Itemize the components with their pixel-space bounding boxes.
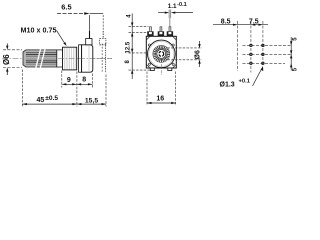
- side-view pin (front, solid): [86, 31, 92, 45]
- svg-text:6.5: 6.5: [61, 3, 71, 12]
- svg-text:±0.5: ±0.5: [45, 95, 58, 102]
- dimensions 5 / 5 (right of pin layout): [290, 37, 299, 71]
- dimension 45 ±0.5 and 15,5 (bottom): [22, 70, 106, 107]
- svg-text:+0.1: +0.1: [239, 79, 251, 85]
- front pins (3): [147, 27, 173, 37]
- dimension 6.5 (top of side view): [57, 3, 103, 31]
- svg-text:1.1: 1.1: [168, 3, 177, 10]
- dimensions 9 and 8 (bushing/body depth): [62, 71, 93, 88]
- left dimension stack: 4 / 12.5 / 8: [125, 14, 151, 80]
- dimension 16 (bottom of front view): [147, 72, 176, 106]
- centerline overlay through bushing/body: [58, 58, 112, 60]
- dimensions 8.5 / 7.5 (top of pin layout): [213, 19, 268, 26]
- threaded bushing M10: [63, 47, 77, 70]
- dimension Ø6 (shaft diameter, left): [2, 44, 22, 76]
- right dimension Ø6 (front view shaft): [168, 41, 203, 67]
- svg-text:12.5: 12.5: [126, 41, 132, 53]
- svg-text:15,5: 15,5: [85, 97, 98, 104]
- label Ø1.3 +0.1 with leader: [220, 66, 264, 89]
- square body: [146, 36, 176, 68]
- svg-text:-0.1: -0.1: [177, 2, 187, 8]
- horizontal dashed lines through pin rows: [243, 45, 292, 63]
- body of potentiometer (side view): [79, 43, 106, 73]
- pin holes 2x3: [250, 44, 264, 64]
- label M10 x 0.75 with leader: [21, 26, 67, 46]
- svg-text:M10 x 0.75: M10 x 0.75: [21, 26, 57, 35]
- shaft (knurled): [23, 49, 57, 68]
- dimension 1.1 -0.1 (pin thickness, top): [158, 2, 193, 27]
- svg-text:45: 45: [37, 97, 45, 104]
- bottom tabs: [150, 68, 154, 71]
- svg-text:9: 9: [67, 77, 71, 84]
- centerline of side view: [2, 58, 112, 60]
- vertical dashed reference lines: [238, 21, 263, 73]
- plain shaft section: [57, 50, 63, 67]
- rosette circle: [148, 40, 176, 68]
- svg-text:16: 16: [156, 95, 164, 102]
- svg-text:Ø6: Ø6: [195, 50, 202, 59]
- side-view pin (hidden, dashed): [100, 31, 106, 45]
- corner rivets: [148, 44, 174, 65]
- svg-text:Ø1.3: Ø1.3: [220, 82, 235, 89]
- vertical centerline below square: [160, 64, 162, 75]
- svg-text:Ø6: Ø6: [2, 54, 11, 65]
- svg-text:8: 8: [82, 76, 86, 83]
